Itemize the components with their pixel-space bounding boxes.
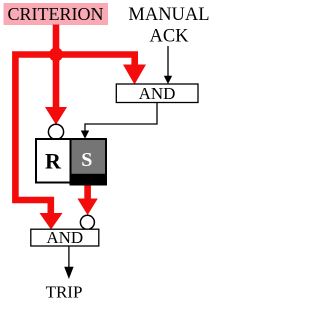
junction xyxy=(49,48,63,62)
AND gate U2 (bottom) xyxy=(31,228,99,247)
node CRITERION xyxy=(4,3,109,25)
svg-text:R: R xyxy=(45,149,62,174)
arrowhead red into bottom AND (left input) xyxy=(40,213,63,230)
bubble at bottom AND right input xyxy=(80,215,94,229)
wire bottom AND to TRIP (black) xyxy=(68,246,70,268)
RS latch: R cell xyxy=(36,139,71,183)
svg-text:CRITERION: CRITERION xyxy=(8,4,104,24)
wire S output down (red) xyxy=(84,184,91,200)
AND gate U1 (top) xyxy=(116,84,198,103)
bubble at R input xyxy=(48,124,63,139)
wire junction left and down left side (red) xyxy=(15,55,56,215)
svg-text:AND: AND xyxy=(139,84,176,103)
svg-text:S: S xyxy=(81,149,92,171)
wire criterion down to R (red) xyxy=(53,25,60,109)
arrowhead red S output into bubble xyxy=(77,199,97,216)
arrowhead black into top AND xyxy=(164,76,172,84)
svg-text:AND: AND xyxy=(46,228,83,247)
RS latch: S cell xyxy=(70,139,108,186)
svg-text:ACK: ACK xyxy=(149,27,189,47)
node MANUAL ACK xyxy=(128,5,209,47)
svg-text:TRIP: TRIP xyxy=(46,283,83,302)
arrowhead black to TRIP xyxy=(64,267,73,279)
arrowhead red into R bubble xyxy=(45,107,67,125)
arrowhead red into top AND xyxy=(123,65,146,85)
svg-text:MANUAL: MANUAL xyxy=(128,5,209,25)
arrowhead black into S xyxy=(81,131,89,139)
wire junction right to top AND (red) xyxy=(56,55,135,67)
wire top AND to S input (black) xyxy=(85,103,157,132)
wire MANUAL ACK to top AND (black) xyxy=(167,46,169,78)
